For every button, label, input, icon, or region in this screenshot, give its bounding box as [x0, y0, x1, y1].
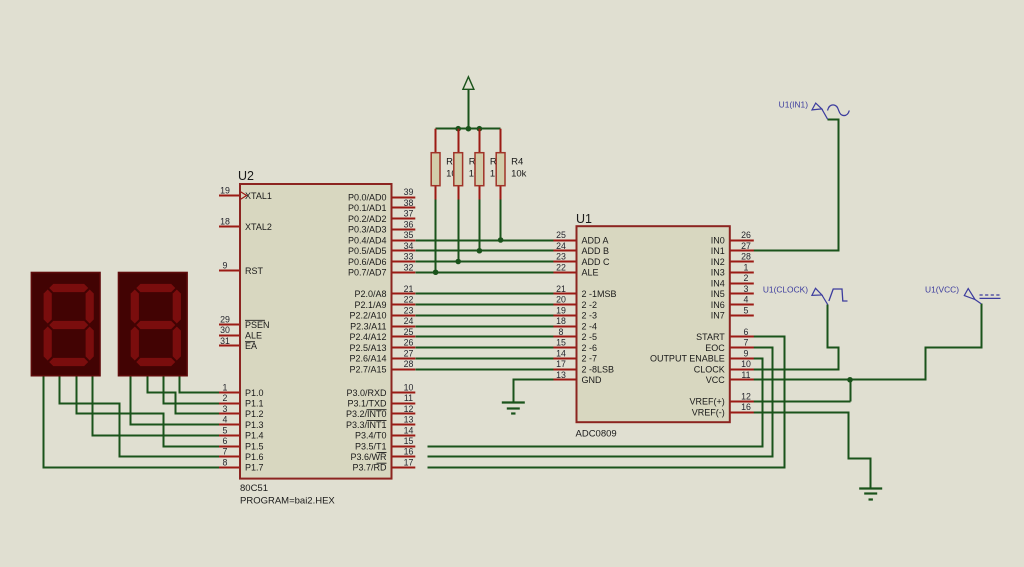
svg-text:U2: U2: [238, 169, 254, 183]
svg-text:1: 1: [744, 262, 749, 272]
svg-text:IN4: IN4: [711, 278, 725, 288]
svg-text:P2.5/A13: P2.5/A13: [349, 343, 386, 353]
svg-text:2: 2: [223, 393, 228, 403]
svg-text:R4: R4: [511, 157, 523, 168]
svg-text:P0.3/AD3: P0.3/AD3: [348, 225, 387, 235]
svg-text:ALE: ALE: [582, 268, 599, 278]
svg-text:37: 37: [404, 209, 414, 219]
svg-text:P3.7/RD: P3.7/RD: [352, 463, 387, 473]
svg-text:38: 38: [404, 198, 414, 208]
svg-text:P3.3/INT1: P3.3/INT1: [346, 420, 387, 430]
svg-text:18: 18: [556, 316, 566, 326]
svg-text:9: 9: [744, 348, 749, 358]
svg-text:21: 21: [556, 284, 566, 294]
svg-text:4: 4: [744, 295, 749, 305]
svg-text:P3.5/T1: P3.5/T1: [355, 441, 387, 451]
svg-text:U1(IN1): U1(IN1): [779, 100, 809, 110]
svg-text:39: 39: [404, 187, 414, 197]
svg-text:22: 22: [556, 262, 566, 272]
svg-text:IN6: IN6: [711, 300, 725, 310]
svg-text:25: 25: [556, 230, 566, 240]
svg-text:13: 13: [556, 370, 566, 380]
svg-text:24: 24: [556, 241, 566, 251]
svg-text:PSEN: PSEN: [245, 320, 270, 330]
svg-text:1: 1: [223, 383, 228, 393]
svg-text:GND: GND: [582, 375, 603, 385]
svg-text:P1.3: P1.3: [245, 420, 264, 430]
svg-text:2 -4: 2 -4: [582, 321, 598, 331]
svg-text:ADD A: ADD A: [582, 235, 609, 245]
svg-text:31: 31: [220, 336, 230, 346]
svg-text:OUTPUT ENABLE: OUTPUT ENABLE: [650, 354, 725, 364]
svg-text:U1(CLOCK): U1(CLOCK): [763, 285, 808, 295]
svg-text:27: 27: [741, 241, 751, 251]
svg-text:IN3: IN3: [711, 268, 725, 278]
svg-text:32: 32: [404, 262, 414, 272]
svg-text:START: START: [696, 332, 725, 342]
svg-text:5: 5: [223, 425, 228, 435]
svg-text:P3.2/INT0: P3.2/INT0: [346, 409, 387, 419]
svg-text:80C51: 80C51: [240, 483, 268, 494]
svg-text:2 -6: 2 -6: [582, 343, 598, 353]
svg-text:2 -7: 2 -7: [582, 354, 598, 364]
svg-text:P0.2/AD2: P0.2/AD2: [348, 214, 387, 224]
svg-text:25: 25: [404, 327, 414, 337]
svg-text:IN2: IN2: [711, 257, 725, 267]
svg-text:P0.1/AD1: P0.1/AD1: [348, 203, 387, 213]
svg-text:22: 22: [404, 295, 414, 305]
svg-text:34: 34: [404, 241, 414, 251]
svg-text:IN5: IN5: [711, 289, 725, 299]
svg-text:2 -3: 2 -3: [582, 311, 598, 321]
svg-text:ALE: ALE: [245, 331, 262, 341]
svg-text:CLOCK: CLOCK: [694, 364, 725, 374]
svg-text:P2.2/A10: P2.2/A10: [349, 311, 386, 321]
svg-text:P0.6/AD6: P0.6/AD6: [348, 257, 387, 267]
svg-text:P1.2: P1.2: [245, 409, 264, 419]
svg-text:EA: EA: [245, 341, 257, 351]
svg-text:P0.4/AD4: P0.4/AD4: [348, 235, 387, 245]
svg-text:VREF(-): VREF(-): [692, 407, 725, 417]
svg-text:13: 13: [404, 415, 414, 425]
svg-text:3: 3: [744, 284, 749, 294]
svg-text:2 -8LSB: 2 -8LSB: [582, 364, 615, 374]
svg-text:20: 20: [556, 295, 566, 305]
svg-text:XTAL2: XTAL2: [245, 222, 272, 232]
svg-text:P1.5: P1.5: [245, 441, 264, 451]
svg-text:P0.5/AD5: P0.5/AD5: [348, 246, 387, 256]
svg-text:10k: 10k: [511, 169, 527, 180]
svg-text:P2.0/A8: P2.0/A8: [354, 289, 386, 299]
svg-text:P0.0/AD0: P0.0/AD0: [348, 192, 387, 202]
svg-text:U1: U1: [576, 212, 592, 226]
svg-text:7: 7: [744, 338, 749, 348]
svg-text:2 -2: 2 -2: [582, 300, 598, 310]
svg-text:VCC: VCC: [706, 375, 726, 385]
svg-text:XTAL1: XTAL1: [245, 191, 272, 201]
svg-text:P2.4/A12: P2.4/A12: [349, 332, 386, 342]
svg-text:26: 26: [404, 338, 414, 348]
svg-text:IN7: IN7: [711, 311, 725, 321]
svg-text:11: 11: [741, 370, 750, 380]
svg-text:4: 4: [223, 415, 228, 425]
svg-text:EOC: EOC: [705, 343, 725, 353]
svg-text:10: 10: [741, 359, 751, 369]
svg-text:29: 29: [220, 315, 230, 325]
svg-text:8: 8: [559, 327, 564, 337]
svg-text:P2.7/A15: P2.7/A15: [349, 364, 386, 374]
svg-text:P0.7/AD7: P0.7/AD7: [348, 268, 387, 278]
svg-text:IN0: IN0: [711, 235, 725, 245]
svg-text:ADD B: ADD B: [582, 246, 610, 256]
svg-text:P2.1/A9: P2.1/A9: [354, 300, 386, 310]
svg-text:P1.1: P1.1: [245, 399, 264, 409]
svg-text:P3.6/WR: P3.6/WR: [350, 452, 387, 462]
svg-text:30: 30: [220, 325, 230, 335]
svg-text:P1.4: P1.4: [245, 431, 264, 441]
svg-text:14: 14: [556, 348, 566, 358]
svg-text:36: 36: [404, 219, 414, 229]
svg-text:27: 27: [404, 348, 414, 358]
svg-text:ADC0809: ADC0809: [576, 429, 617, 440]
svg-text:VREF(+): VREF(+): [690, 397, 725, 407]
svg-text:15: 15: [404, 436, 414, 446]
svg-text:8: 8: [223, 457, 228, 467]
svg-text:19: 19: [220, 186, 230, 196]
svg-text:6: 6: [744, 327, 749, 337]
svg-text:11: 11: [404, 393, 413, 403]
svg-text:12: 12: [741, 391, 751, 401]
svg-text:28: 28: [404, 359, 414, 369]
svg-text:24: 24: [404, 316, 414, 326]
svg-text:35: 35: [404, 230, 414, 240]
svg-text:10: 10: [404, 383, 414, 393]
svg-text:16: 16: [741, 402, 751, 412]
svg-text:28: 28: [741, 252, 751, 262]
svg-text:23: 23: [556, 252, 566, 262]
svg-text:P3.0/RXD: P3.0/RXD: [346, 388, 387, 398]
svg-text:5: 5: [744, 305, 749, 315]
svg-text:P3.1/TXD: P3.1/TXD: [347, 399, 387, 409]
svg-text:33: 33: [404, 252, 414, 262]
svg-text:P2.3/A11: P2.3/A11: [350, 321, 386, 331]
svg-text:17: 17: [556, 359, 566, 369]
svg-text:16: 16: [404, 447, 414, 457]
svg-text:2 -5: 2 -5: [582, 332, 598, 342]
svg-text:7: 7: [223, 447, 228, 457]
svg-text:ADD C: ADD C: [582, 257, 611, 267]
svg-text:6: 6: [223, 436, 228, 446]
svg-text:18: 18: [220, 217, 230, 227]
svg-text:P1.0: P1.0: [245, 388, 264, 398]
svg-text:12: 12: [404, 404, 414, 414]
svg-text:26: 26: [741, 230, 751, 240]
svg-text:P1.7: P1.7: [245, 463, 264, 473]
svg-text:3: 3: [223, 404, 228, 414]
svg-text:21: 21: [404, 284, 414, 294]
svg-text:2: 2: [744, 273, 749, 283]
svg-text:U1(VCC): U1(VCC): [925, 285, 959, 295]
svg-text:23: 23: [404, 305, 414, 315]
svg-text:2 -1MSB: 2 -1MSB: [582, 289, 617, 299]
svg-text:P1.6: P1.6: [245, 452, 264, 462]
svg-text:RST: RST: [245, 266, 264, 276]
svg-text:17: 17: [404, 457, 414, 467]
svg-text:15: 15: [556, 338, 566, 348]
svg-text:P3.4/T0: P3.4/T0: [355, 431, 387, 441]
svg-text:14: 14: [404, 425, 414, 435]
svg-text:9: 9: [223, 261, 228, 271]
svg-text:IN1: IN1: [711, 246, 725, 256]
svg-text:P2.6/A14: P2.6/A14: [349, 354, 386, 364]
svg-text:PROGRAM=bai2.HEX: PROGRAM=bai2.HEX: [240, 496, 335, 507]
svg-text:19: 19: [556, 305, 566, 315]
